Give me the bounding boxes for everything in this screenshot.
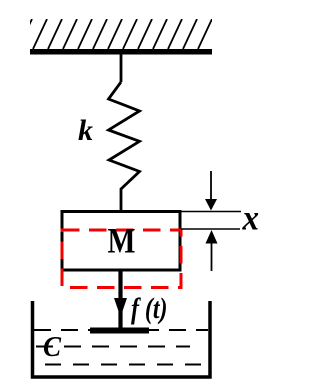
svg-text:k: k (78, 114, 93, 147)
damper container C (33, 301, 211, 377)
fluid dash row 3 (45, 364, 203, 366)
fluid dash row 2 (36, 346, 190, 348)
down arrow of x dimension (210, 171, 212, 200)
mass M rectangle (62, 212, 180, 271)
spring k (109, 82, 140, 211)
force arrowhead f(t) (114, 298, 127, 317)
damper piston plate (90, 328, 149, 334)
reference line from displaced top (181, 228, 240, 230)
force rod below mass (118, 269, 122, 330)
up arrow of x dimension (211, 243, 213, 271)
svg-text:C: C (43, 332, 61, 363)
svg-text:f (t): f (t) (131, 292, 168, 325)
svg-text:x: x (242, 198, 259, 238)
fixed ceiling hatching (18, 19, 212, 49)
fluid dash row 1 (34, 329, 208, 331)
ceiling bar (30, 49, 212, 55)
red dashed displaced-position rectangle (62, 230, 181, 288)
svg-text:M: M (108, 221, 136, 261)
rod from ceiling to spring (120, 54, 123, 82)
reference line from mass top (180, 211, 241, 213)
